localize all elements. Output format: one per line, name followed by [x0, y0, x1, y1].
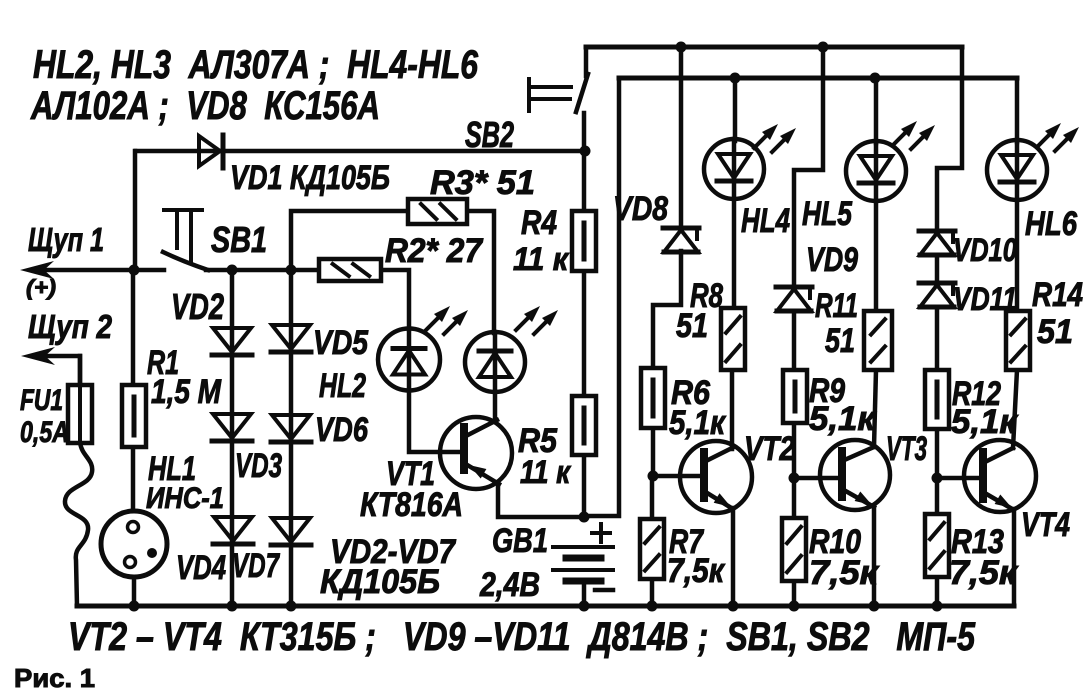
zener VD11 [919, 283, 955, 307]
wire rail 1 right drop to VD10 column [937, 47, 962, 231]
wire flexible lead below FU1 [65, 443, 92, 606]
fuse FU1 [68, 356, 92, 443]
svg-text:1,5 М: 1,5 М [151, 373, 222, 411]
wire HL3 to VT1 collector [493, 392, 498, 420]
label VD7 [232, 547, 280, 585]
svg-text:VD6: VD6 [315, 411, 369, 449]
HL5 emission arrows [893, 121, 935, 149]
node junction VD2 column top [227, 265, 238, 276]
svg-text:0,5А: 0,5А [20, 416, 69, 449]
svg-text:HL5: HL5 [802, 195, 853, 233]
HL6 emission arrows [1037, 123, 1079, 151]
wire HL6 to R14 [1015, 200, 1020, 311]
svg-text:VT2: VT2 [744, 430, 795, 468]
wire R4 top lead [582, 151, 587, 211]
wire GB1 bottom lead [582, 582, 587, 606]
value R14 51 [1037, 313, 1073, 351]
wire VD8 column top [679, 47, 684, 227]
resistor R10 [782, 518, 806, 581]
wire VD11 to R12 [935, 307, 940, 370]
label GB1 [492, 522, 548, 560]
label VD2-VD7 [330, 533, 457, 571]
label HL6 [1025, 205, 1078, 243]
svg-text:5,1к: 5,1к [809, 400, 877, 438]
pushbutton SB2 [529, 47, 588, 112]
value R12 5,1к [951, 403, 1019, 441]
svg-text:Щуп 2: Щуп 2 [28, 308, 113, 345]
svg-text:7,5к: 7,5к [949, 554, 1019, 592]
node junction R13 bottom [932, 601, 943, 612]
resistor R4 [572, 211, 596, 271]
label R12 [952, 375, 1001, 413]
resistor R14 [1006, 311, 1030, 370]
label VD9 [806, 241, 858, 279]
svg-text:КТ816А: КТ816А [360, 486, 463, 524]
svg-text:R3* 51: R3* 51 [430, 164, 535, 202]
node junction on probe wire at R1 column [129, 265, 140, 276]
label R5 [518, 422, 558, 460]
wire rail 2 right drop to HL6 [1015, 78, 1020, 142]
node junction VD5 column top [286, 265, 297, 276]
wire R3 to HL3 [467, 211, 494, 333]
wire R1 column top [131, 270, 136, 385]
node junction rail2 HL4 [730, 73, 741, 84]
label R11 [815, 287, 858, 325]
label R14 [1032, 276, 1083, 314]
wire VD5 column [289, 270, 294, 606]
probe 2 arrowhead [21, 347, 55, 365]
caption bottom [68, 615, 976, 659]
label VD5 [313, 324, 369, 362]
wire VT2 base lead [653, 474, 704, 479]
node junction R10 bottom [789, 601, 800, 612]
wire left drop from VD1 line [133, 151, 138, 270]
svg-text:HL6: HL6 [1025, 205, 1078, 243]
GB1 plus sign [592, 524, 610, 542]
HL3 emission arrows [516, 306, 558, 334]
HL2 emission arrows [426, 306, 468, 334]
svg-text:VD11: VD11 [953, 281, 1017, 317]
wire R4 to R5 [582, 271, 587, 396]
wire SB2 bottom stub [582, 113, 587, 151]
label VD8 [613, 190, 668, 228]
svg-text:VD7: VD7 [232, 547, 280, 585]
note line 2 [30, 84, 380, 128]
wire VT3 emitter down [872, 507, 877, 606]
label HL4 [741, 202, 790, 240]
resistor R9 [783, 370, 807, 423]
resistor R12 [925, 370, 949, 429]
label R9 [809, 372, 845, 410]
node junction SB2 / R4 / VD1 [580, 146, 591, 157]
label VD10 [953, 232, 1017, 268]
label VT1 [386, 455, 435, 493]
svg-text:R11: R11 [815, 287, 858, 325]
value R9 5,1к [809, 400, 877, 438]
svg-text:Щуп 1: Щуп 1 [28, 221, 104, 258]
label (+) [26, 275, 56, 300]
svg-text:VT4: VT4 [1021, 506, 1070, 544]
wire VD1 line [136, 149, 585, 154]
svg-text:VD5: VD5 [313, 324, 369, 362]
diode VD3 [212, 414, 252, 441]
label probe 1 Щуп 1 [28, 221, 104, 258]
svg-text:АЛ102А ; VD8 КС156А: АЛ102А ; VD8 КС156А [30, 84, 380, 128]
wire R13 leads [935, 478, 940, 606]
wire R6 to base node [651, 428, 656, 476]
resistor R8 [721, 308, 745, 370]
node junction rail1 VD9 branch [818, 42, 829, 53]
battery GB1 [553, 547, 613, 581]
LED HL5 [846, 141, 906, 201]
svg-text:HL2: HL2 [319, 367, 366, 405]
svg-text:ИНС-1: ИНС-1 [146, 482, 224, 515]
label R7 [669, 523, 705, 561]
resistor R13 [925, 514, 949, 577]
node junction VT3 base [789, 473, 800, 484]
label VD1 КД105Б [230, 159, 390, 197]
svg-text:51: 51 [825, 322, 855, 360]
svg-text:КД105Б: КД105Б [320, 563, 440, 601]
label VT4 [1021, 506, 1070, 544]
label HL1 [148, 450, 196, 488]
svg-text:VT3: VT3 [886, 430, 927, 468]
svg-text:11 к: 11 к [520, 454, 572, 490]
wire rail 2 left drop to GB1 plus [586, 78, 619, 516]
diode VD7 [271, 518, 311, 545]
wire HL4 top lead [733, 78, 738, 141]
diode VD5 [271, 325, 311, 352]
value 1,5М [151, 373, 222, 411]
label R8 [690, 277, 723, 315]
diode VD1 [199, 135, 223, 168]
label VD4 [176, 549, 226, 587]
value R5 11к [520, 454, 572, 490]
value КД105Б [320, 563, 440, 601]
label VD11 [953, 281, 1017, 317]
wire VT2 emitter down [731, 508, 736, 606]
lamp HL1 [101, 511, 167, 577]
node junction VT2 emitter bottom [728, 601, 739, 612]
value 2,4В [479, 566, 540, 604]
zener VD8 [663, 228, 699, 252]
value R7 7,5к [667, 552, 726, 590]
transistor VT2 [680, 441, 752, 513]
zener VD9 [776, 287, 812, 311]
wire R1 to HL1 [131, 447, 136, 511]
transistor VT1 [440, 417, 512, 489]
wire HL5 to R11 [874, 201, 879, 311]
LED HL4 [704, 139, 764, 199]
node junction above GB1 [579, 512, 590, 523]
label R13 [951, 523, 1004, 561]
label VD2 [171, 286, 224, 327]
value 0,5А [20, 416, 69, 449]
diode VD2 [212, 328, 252, 355]
svg-text:51: 51 [676, 307, 708, 345]
resistor R1 [122, 385, 146, 447]
wire R2 to HL2 [381, 270, 409, 329]
wire rail1 step to VD9 [794, 47, 823, 287]
value ИНС-1 [146, 482, 224, 515]
wire probe 2 lead [34, 356, 80, 385]
HL4 emission arrows [754, 124, 796, 152]
svg-text:VD9: VD9 [806, 241, 858, 279]
svg-text:VD4: VD4 [176, 549, 226, 587]
svg-text:2,4В: 2,4В [479, 566, 540, 604]
value R13 7,5к [949, 554, 1019, 592]
svg-text:SB1: SB1 [211, 219, 267, 260]
resistor R7 [640, 519, 664, 579]
wire VD2 column [230, 270, 235, 606]
resistor R11 [864, 311, 892, 370]
node junction VT3 emitter bottom [869, 601, 880, 612]
GB1 minus sign [595, 588, 613, 593]
wire VT4 emitter down [1012, 509, 1017, 606]
wire probe 1 lead [34, 268, 164, 273]
svg-text:VD2: VD2 [171, 286, 224, 327]
wire R3 branch up-over [291, 211, 408, 270]
LED HL6 [987, 140, 1047, 200]
wire bottom rail [77, 604, 1014, 609]
LED HL3 [465, 332, 525, 392]
svg-text:Рис. 1: Рис. 1 [14, 663, 95, 693]
svg-text:7,5к: 7,5к [809, 554, 880, 592]
value R8 51 [676, 307, 708, 345]
label probe 2 Щуп 2 [28, 308, 113, 345]
node VD7 bottom [286, 601, 297, 612]
label FU1 [20, 384, 63, 417]
value КТ816А [360, 486, 463, 524]
svg-text:VD1 КД105Б: VD1 КД105Б [230, 159, 390, 197]
resistor R5 [572, 396, 596, 455]
label R3* 51 [430, 164, 535, 202]
svg-text:R2* 27: R2* 27 [385, 232, 484, 270]
wire probe 1 continues to R2 [206, 268, 319, 273]
svg-text:FU1: FU1 [20, 384, 63, 417]
transistor VT3 [820, 440, 890, 510]
node VD4 bottom [227, 601, 238, 612]
wire R12 to base node [935, 429, 940, 478]
zener VD10 [919, 231, 955, 255]
wire VD8 to R6 [653, 251, 681, 368]
svg-text:VD3: VD3 [235, 447, 282, 485]
wire top rail 2 [619, 76, 1017, 81]
value R4 11к [513, 241, 570, 277]
value R6 5,1к [669, 404, 727, 442]
node GB1 bottom [579, 601, 590, 612]
wire HL4 to R8 [732, 199, 737, 308]
svg-text:5,1к: 5,1к [951, 403, 1019, 441]
label R2* 27 [385, 232, 484, 270]
wire R9 to base node [792, 423, 797, 478]
pushbutton SB1 [163, 210, 208, 270]
svg-text:GB1: GB1 [492, 522, 548, 560]
value R10 7,5к [809, 554, 880, 592]
svg-text:R14: R14 [1032, 276, 1083, 314]
label VT3 [886, 430, 927, 468]
wire VD10-VD11 link [935, 255, 940, 283]
label SB2 [465, 114, 514, 155]
svg-text:7,5к: 7,5к [667, 552, 726, 590]
value R11 51 [825, 322, 855, 360]
probe 1 arrowhead [20, 261, 54, 279]
wire HL5 top lead [874, 78, 879, 143]
label R1 [147, 344, 179, 382]
node junction rail1 VD8 [676, 42, 687, 53]
node junction R7 bottom [647, 601, 658, 612]
svg-text:SB2: SB2 [465, 114, 514, 155]
caption Рис. 1 [14, 663, 95, 693]
label HL5 [802, 195, 853, 233]
wire R11 to VT3 collector [874, 370, 876, 447]
diode VD6 [271, 415, 311, 442]
resistor R3 [408, 199, 467, 224]
node HL1 bottom [129, 601, 140, 612]
svg-text:11 к: 11 к [513, 241, 570, 277]
wire VT4 base lead [937, 476, 983, 481]
wire HL1 to bottom rail [132, 577, 137, 606]
svg-text:51: 51 [1037, 313, 1073, 351]
note line 1 [33, 43, 479, 87]
label R10 [809, 523, 861, 561]
label VD6 [315, 411, 369, 449]
svg-text:HL2, HL3 АЛ307А ; HL4-HL6: HL2, HL3 АЛ307А ; HL4-HL6 [33, 43, 479, 87]
wire R5 to GB1 [582, 455, 587, 519]
svg-text:VD10: VD10 [953, 232, 1017, 268]
svg-text:HL4: HL4 [741, 202, 790, 240]
label R4 [521, 204, 557, 242]
wire HL2 to VT1 base [409, 390, 461, 452]
node junction VT4 base [932, 473, 943, 484]
node junction rail2 HL5 [870, 73, 881, 84]
label R6 [671, 374, 711, 412]
node junction VT2 base [648, 471, 659, 482]
transistor VT4 [964, 440, 1036, 512]
wire R10 leads [792, 478, 797, 606]
resistor R6 [641, 368, 665, 428]
label HL2 [319, 367, 366, 405]
wire VT1 emitter to GB1 node [498, 484, 584, 517]
label VD3 [235, 447, 282, 485]
wire R8 to VT2 collector [730, 370, 735, 449]
wire VD9 to R9 [792, 311, 797, 370]
wire R7 leads [650, 476, 655, 606]
resistor R2 [319, 259, 381, 281]
svg-text:5,1к: 5,1к [669, 404, 727, 442]
wire top rail 1 [586, 45, 962, 50]
label SB1 [211, 219, 267, 260]
wire R14 to VT4 collector [1013, 370, 1017, 448]
svg-text:(+): (+) [26, 275, 56, 300]
svg-text:VT2 – VT4 КТ315Б ; VD9 –VD1: VT2 – VT4 КТ315Б ; VD9 –VD11 Д814В ; SB1… [68, 615, 976, 659]
svg-text:R4: R4 [521, 204, 557, 242]
wire VT3 base lead [794, 476, 842, 481]
LED HL2 [378, 329, 440, 391]
diode VD4 [213, 517, 253, 544]
svg-text:VD8: VD8 [613, 190, 668, 228]
label VT2 [744, 430, 795, 468]
